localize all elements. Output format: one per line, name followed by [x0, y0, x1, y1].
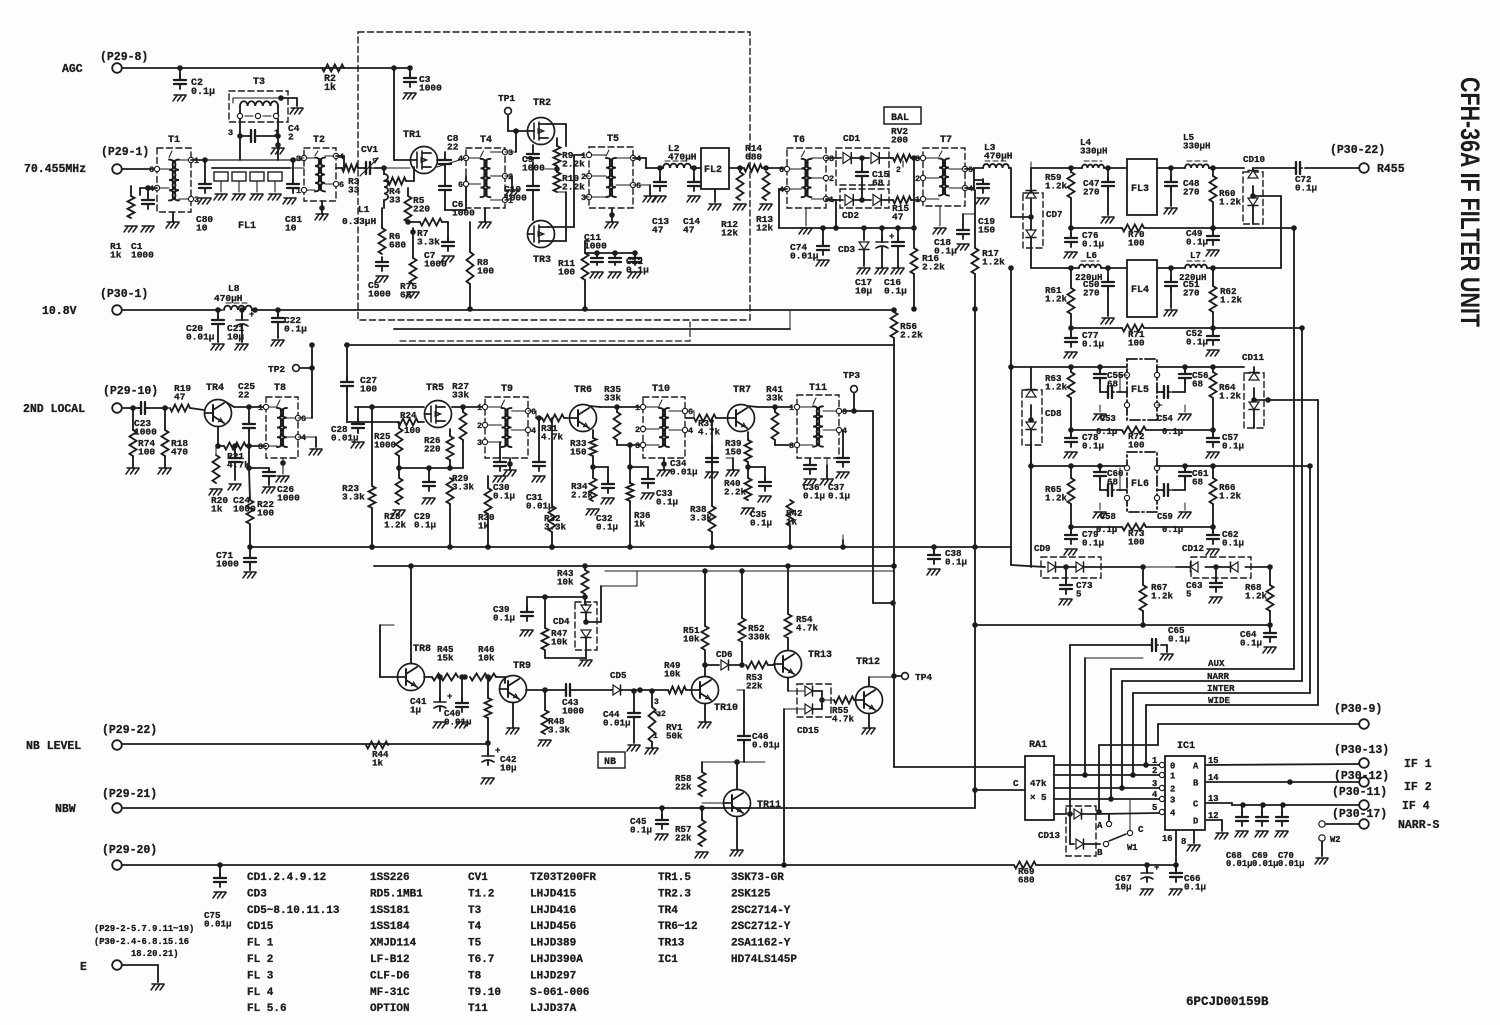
capacitor C33b	[630, 467, 678, 507]
svg-text:LHJD456: LHJD456	[530, 921, 576, 933]
svg-text:T8: T8	[468, 970, 482, 982]
svg-text:1000: 1000	[131, 250, 154, 261]
svg-text:100: 100	[1128, 337, 1145, 348]
diode CD8 box	[1022, 390, 1062, 445]
svg-text:47: 47	[892, 212, 904, 223]
test point TP2	[268, 342, 315, 375]
resistor R75	[400, 228, 417, 301]
resistor R51	[683, 568, 709, 676]
wire rail1	[1068, 165, 1082, 171]
svg-text:1000: 1000	[504, 193, 527, 204]
svg-text:CLF-D6: CLF-D6	[370, 970, 410, 982]
svg-text:0.1μ: 0.1μ	[1162, 427, 1183, 437]
svg-text:T9.10: T9.10	[468, 987, 501, 999]
svg-text:3.3k: 3.3k	[544, 521, 567, 532]
ground	[891, 250, 904, 274]
svg-text:1: 1	[258, 403, 263, 413]
inductor L2	[663, 143, 697, 168]
transformer T4	[458, 135, 513, 208]
svg-text:3: 3	[228, 128, 233, 138]
svg-text:CD1.2.4.9.12: CD1.2.4.9.12	[247, 872, 326, 884]
svg-text:NB: NB	[604, 757, 616, 768]
wire	[396, 456, 463, 471]
svg-text:3.3k: 3.3k	[452, 481, 475, 492]
svg-text:47: 47	[683, 225, 695, 236]
svg-text:100: 100	[404, 425, 421, 436]
svg-text:C54: C54	[1157, 414, 1174, 424]
svg-text:1000: 1000	[562, 705, 584, 716]
capacitor C4	[237, 119, 300, 160]
terminal NB LEVEL (P29-22)	[26, 724, 157, 753]
svg-text:TR6~12: TR6~12	[658, 921, 698, 933]
junction	[627, 544, 633, 550]
wire	[911, 274, 917, 312]
svg-text:2SA1162-Y: 2SA1162-Y	[731, 938, 791, 950]
svg-text:LHJD390A: LHJD390A	[530, 954, 583, 966]
capacitor C74	[790, 225, 829, 262]
svg-text:TR7: TR7	[733, 385, 751, 396]
ground	[290, 108, 303, 114]
resistor R9	[554, 138, 586, 170]
capacitor C80	[196, 160, 213, 234]
diode CD9b	[1066, 562, 1146, 572]
svg-text:1: 1	[915, 195, 920, 205]
svg-text:68: 68	[1192, 476, 1204, 487]
resistor R20	[211, 446, 228, 515]
wire	[790, 526, 843, 547]
terminal 2ND LOCAL (P29-10)	[23, 385, 158, 416]
diode CD2a	[826, 195, 865, 206]
junction	[840, 544, 846, 550]
resistor R4	[384, 178, 406, 206]
svg-text:(P29-8): (P29-8)	[100, 51, 148, 64]
ground	[741, 508, 754, 514]
resistor R59	[1045, 168, 1075, 198]
svg-text:+: +	[1154, 863, 1159, 873]
svg-text:470: 470	[171, 447, 188, 458]
svg-text:0.1μ: 0.1μ	[191, 87, 215, 98]
svg-text:0.1μ: 0.1μ	[1186, 336, 1208, 347]
resistor R3	[342, 165, 360, 196]
capacitor C63	[1186, 567, 1222, 599]
label NB	[598, 752, 625, 768]
inductor L1	[342, 165, 388, 227]
wire	[1210, 202, 1216, 231]
diode CD10b	[1248, 196, 1281, 268]
jumper W2	[1319, 821, 1359, 856]
svg-text:10μ: 10μ	[227, 332, 244, 343]
svg-text:T4: T4	[468, 921, 482, 933]
ground	[857, 268, 870, 274]
svg-text:10μ: 10μ	[1115, 881, 1132, 892]
svg-text:1000: 1000	[277, 493, 300, 504]
svg-text:5: 5	[1186, 588, 1192, 599]
capacitor C20	[186, 310, 224, 343]
transistor TR8	[398, 644, 432, 691]
terminal E	[80, 924, 194, 974]
svg-text:33k: 33k	[766, 393, 783, 404]
svg-text:4.7k: 4.7k	[832, 713, 855, 724]
svg-text:5: 5	[1076, 588, 1082, 599]
svg-text:3: 3	[477, 438, 482, 448]
capacitor C65	[972, 622, 1190, 652]
capacitor C28	[331, 407, 364, 443]
capacitor C81	[285, 160, 302, 234]
capacitor C14	[683, 168, 700, 236]
svg-text:0.01μ: 0.01μ	[1252, 859, 1278, 869]
svg-text:0.1μ: 0.1μ	[884, 286, 907, 297]
ground	[283, 198, 296, 204]
svg-text:2.2k: 2.2k	[922, 262, 945, 273]
wire	[278, 95, 297, 106]
switch W1	[1097, 799, 1144, 858]
test point TP4	[891, 672, 932, 683]
svg-text:TR5: TR5	[426, 383, 444, 394]
capacitor C42	[482, 745, 517, 773]
wire	[575, 689, 613, 691]
svg-text:T7: T7	[940, 135, 952, 146]
IC1 pin labels	[1152, 756, 1219, 847]
capacitor C54	[1157, 414, 1183, 437]
transistor TR6	[570, 385, 597, 432]
wire	[729, 165, 744, 171]
ground	[375, 276, 388, 282]
ground	[695, 852, 708, 858]
svg-text:T1.2: T1.2	[468, 888, 494, 900]
diode CD8a	[1026, 367, 1036, 423]
wire row527	[1071, 526, 1213, 528]
svg-text:0.01μ: 0.01μ	[790, 251, 819, 262]
svg-text:+: +	[447, 692, 452, 702]
wire	[190, 408, 204, 410]
ground T7 tap	[933, 206, 946, 234]
wire	[686, 689, 691, 691]
resistor R36b	[627, 442, 634, 547]
svg-text:2: 2	[581, 172, 586, 182]
wire	[972, 544, 978, 625]
resistor R74	[130, 408, 156, 458]
ground	[1215, 833, 1228, 839]
svg-text:10: 10	[196, 223, 208, 234]
ground	[1255, 831, 1268, 837]
svg-text:E: E	[80, 961, 87, 974]
capacitor C49	[1186, 228, 1219, 247]
capacitor C38	[928, 544, 967, 567]
wire	[1101, 265, 1127, 271]
svg-text:100: 100	[477, 266, 494, 277]
svg-text:100: 100	[360, 384, 377, 395]
svg-text:270: 270	[1183, 186, 1200, 197]
wire	[1054, 774, 1159, 776]
svg-text:T9: T9	[501, 384, 513, 395]
svg-text:MF-31C: MF-31C	[370, 987, 410, 999]
ground	[213, 892, 226, 898]
svg-text:C59: C59	[1157, 512, 1173, 522]
capacitor C36	[803, 458, 825, 501]
filter FL6	[1124, 452, 1159, 512]
wire	[1307, 463, 1313, 693]
diode CD1 box	[836, 133, 889, 185]
junction	[709, 544, 715, 550]
ground	[1164, 310, 1177, 316]
svg-text:0.1μ: 0.1μ	[414, 519, 436, 530]
svg-text:AGC: AGC	[62, 63, 83, 76]
svg-text:100: 100	[257, 508, 274, 519]
ground T8 tap	[276, 458, 289, 482]
svg-text:10.8V: 10.8V	[42, 305, 77, 318]
svg-text:3: 3	[829, 154, 834, 164]
svg-text:A: A	[1097, 820, 1103, 831]
svg-text:T5: T5	[607, 134, 619, 145]
svg-text:3.3k: 3.3k	[548, 724, 571, 735]
ground	[298, 437, 322, 455]
svg-text:1.2k: 1.2k	[1219, 490, 1242, 501]
wire	[702, 802, 723, 804]
junction	[787, 544, 793, 550]
ground	[705, 458, 739, 478]
svg-text:6: 6	[458, 180, 463, 190]
terminal (P30-11)	[1332, 786, 1430, 813]
wire row	[1144, 327, 1302, 329]
svg-text:0.1μ: 0.1μ	[1184, 881, 1206, 892]
ground	[657, 458, 670, 476]
resistor R43	[557, 563, 589, 594]
svg-text:1.2k: 1.2k	[1245, 590, 1268, 601]
svg-text:CD5~8.10.11.13: CD5~8.10.11.13	[247, 905, 340, 917]
svg-text:OPTION: OPTION	[370, 1003, 410, 1015]
svg-text:T6: T6	[793, 135, 805, 146]
svg-text:2: 2	[1170, 785, 1175, 795]
svg-text:LHJD297: LHJD297	[530, 970, 576, 982]
capacitor C11	[584, 232, 631, 265]
capacitor C19	[974, 179, 995, 236]
ground	[836, 472, 849, 478]
svg-text:100: 100	[558, 267, 575, 278]
ground	[1064, 452, 1077, 458]
svg-text:150: 150	[725, 446, 742, 457]
transistor TR13	[775, 650, 833, 678]
wire	[452, 404, 485, 407]
svg-text:C58: C58	[1100, 512, 1116, 522]
svg-text:CV1: CV1	[361, 144, 378, 155]
svg-text:1.2k: 1.2k	[982, 257, 1005, 268]
capacitor C18	[934, 214, 974, 257]
ground	[1178, 503, 1191, 518]
svg-text:2: 2	[288, 132, 294, 143]
svg-text:6: 6	[636, 181, 641, 191]
resistor bias	[485, 674, 492, 746]
svg-text:3: 3	[508, 148, 513, 158]
capacitor C22	[272, 310, 307, 338]
svg-text:2: 2	[915, 174, 920, 184]
svg-text:CD1: CD1	[843, 133, 860, 144]
ground	[976, 198, 989, 204]
resistor R58	[675, 762, 744, 796]
svg-text:TP3: TP3	[843, 370, 860, 381]
svg-text:15k: 15k	[437, 652, 454, 663]
wire	[1100, 375, 1127, 398]
inductor L6	[1075, 250, 1103, 283]
transformer T6	[779, 135, 834, 208]
wire	[854, 677, 894, 700]
svg-text:T1: T1	[168, 135, 180, 146]
test point TP3	[843, 370, 860, 411]
svg-text:C: C	[1013, 778, 1019, 789]
wire	[1210, 504, 1216, 530]
wire rail4	[1028, 463, 1127, 469]
diode CD7a	[1026, 168, 1036, 230]
svg-text:3.3k: 3.3k	[342, 492, 365, 503]
wire	[1008, 265, 1045, 567]
capacitor C69	[1252, 805, 1278, 869]
ground	[1160, 654, 1173, 660]
potentiometer RV1	[649, 688, 684, 742]
resistor R32	[544, 418, 567, 550]
svg-text:0.1μ: 0.1μ	[493, 490, 515, 501]
wire	[1054, 764, 1159, 766]
capacitor C56	[1179, 367, 1209, 392]
transformer T7	[915, 135, 973, 206]
svg-text:10μ: 10μ	[855, 286, 872, 297]
wire	[1210, 312, 1216, 331]
ground	[1064, 549, 1077, 555]
svg-text:4: 4	[636, 154, 641, 164]
svg-text:C53: C53	[1100, 414, 1116, 424]
resistor R41	[748, 384, 792, 445]
transistor TR10	[692, 677, 739, 715]
ground	[422, 498, 435, 504]
ground	[645, 742, 658, 754]
ground	[956, 244, 969, 250]
capacitor C55	[1094, 367, 1124, 392]
ground	[441, 256, 454, 262]
wire	[911, 155, 917, 231]
svg-text:TR1.5: TR1.5	[658, 872, 691, 884]
wire	[298, 368, 312, 418]
svg-text:(P30-2.4-6.8.15.16: (P30-2.4-6.8.15.16	[94, 937, 189, 947]
svg-text:W1: W1	[1127, 843, 1138, 853]
svg-text:10k: 10k	[478, 652, 495, 663]
svg-text:CD4: CD4	[553, 616, 570, 627]
svg-text:CD3: CD3	[838, 244, 855, 255]
resistor R18	[162, 408, 189, 458]
ground	[759, 204, 772, 210]
ground	[708, 204, 721, 210]
svg-text:TR3: TR3	[533, 255, 551, 266]
svg-text:0.1μ: 0.1μ	[1240, 637, 1262, 648]
svg-text:R455: R455	[1377, 163, 1405, 176]
svg-text:3: 3	[258, 442, 263, 452]
wire row	[1071, 227, 1122, 229]
terminal (P30-17)	[1332, 808, 1440, 832]
svg-text:0.33μH: 0.33μH	[342, 216, 377, 227]
svg-text:0.1μ: 0.1μ	[945, 556, 967, 567]
svg-text:L1: L1	[358, 204, 370, 215]
svg-text:IF 1: IF 1	[1404, 758, 1432, 771]
wire	[1210, 398, 1216, 433]
capacitor C10	[504, 162, 539, 220]
ground	[633, 185, 656, 202]
ground	[1064, 252, 1077, 258]
capacitor C79	[1065, 527, 1104, 548]
svg-text:0.01μ: 0.01μ	[1278, 859, 1304, 869]
svg-text:100: 100	[1128, 237, 1145, 248]
resistor R42	[786, 500, 803, 527]
svg-text:(P30-9): (P30-9)	[1334, 703, 1382, 716]
capacitor C35	[748, 467, 772, 528]
svg-text:4.7k: 4.7k	[796, 622, 819, 633]
svg-text:LF-B12: LF-B12	[370, 954, 410, 966]
inductor L7	[1179, 250, 1207, 283]
wire	[788, 678, 797, 691]
ground	[1263, 647, 1276, 653]
svg-text:CD15: CD15	[247, 921, 274, 933]
svg-text:(P29-1): (P29-1)	[101, 146, 149, 159]
svg-text:0.1μ: 0.1μ	[1082, 238, 1104, 249]
wire	[1100, 468, 1127, 496]
wire	[504, 677, 506, 683]
ground	[1206, 452, 1219, 458]
resistor R2	[322, 65, 344, 95]
svg-text:10k: 10k	[683, 633, 700, 644]
svg-text:LHJD416: LHJD416	[530, 905, 576, 917]
transistor TR9	[500, 661, 532, 703]
resistor R67	[1140, 567, 1174, 611]
resistor R55	[831, 697, 855, 725]
svg-text:68: 68	[1192, 378, 1204, 389]
ground	[1206, 549, 1219, 555]
svg-text:3: 3	[296, 154, 301, 164]
svg-text:TR8: TR8	[413, 644, 431, 655]
junction	[485, 544, 491, 550]
wire	[347, 404, 424, 422]
resistor R72	[1122, 427, 1146, 451]
svg-text:6: 6	[301, 414, 306, 424]
ground	[1101, 217, 1114, 223]
wire rail3b	[1157, 364, 1244, 370]
junction	[549, 544, 555, 550]
wire rail	[345, 344, 894, 346]
svg-text:3SK73-GR: 3SK73-GR	[731, 872, 784, 884]
wire bus y625	[975, 624, 1270, 626]
wire	[823, 199, 914, 231]
svg-text:6: 6	[842, 407, 847, 417]
svg-text:TR2: TR2	[533, 98, 551, 109]
wire	[391, 65, 397, 148]
wire select WIDE	[1146, 695, 1318, 765]
ground	[1093, 405, 1106, 420]
svg-text:22: 22	[238, 390, 250, 401]
ground	[505, 176, 518, 196]
svg-text:CD15: CD15	[797, 725, 820, 736]
resistor R56	[891, 307, 924, 341]
resistor R27	[452, 381, 469, 468]
resistor R69	[1014, 862, 1036, 886]
svg-text:T5: T5	[468, 938, 482, 950]
svg-text:1.2k: 1.2k	[1219, 196, 1242, 207]
svg-text:(P30-17): (P30-17)	[1332, 808, 1387, 821]
capacitor C62	[1207, 527, 1244, 548]
svg-text:BAL: BAL	[891, 113, 909, 124]
wire	[762, 165, 786, 171]
svg-text:270: 270	[1083, 287, 1100, 298]
ground	[1093, 503, 1106, 518]
svg-text:0.1μ: 0.1μ	[1295, 182, 1317, 193]
transistor TR1 (FET)	[403, 130, 438, 174]
capacitor C40	[444, 674, 472, 727]
resistor R39	[725, 432, 752, 470]
ground	[455, 722, 468, 728]
